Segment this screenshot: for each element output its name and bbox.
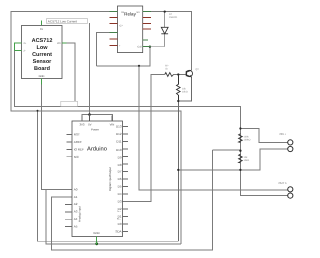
- terminal ON + circles: [288, 140, 293, 152]
- svg-text:Power: Power: [91, 127, 99, 131]
- wire: relay left pin4: [97, 33, 118, 66]
- svg-text:A0: A0: [74, 187, 78, 191]
- resistor R1 1k horizontal: [165, 73, 174, 77]
- svg-text:Low: Low: [37, 45, 49, 51]
- junction dot GND bus: [95, 242, 98, 245]
- svg-text:Sensor: Sensor: [33, 59, 53, 65]
- relay K1: [118, 6, 143, 53]
- svg-text:VO: VO: [57, 42, 61, 45]
- svg-text:D4: D4: [118, 192, 122, 196]
- transistor Q1: [186, 70, 192, 77]
- resistor R3 100k vertical: [239, 134, 243, 143]
- wire: Arduino D10 to divider tap: [213, 149, 241, 151]
- svg-text:Tx→: Tx→: [117, 210, 121, 213]
- svg-text:D6: D6: [118, 177, 122, 181]
- svg-text:Relay: Relay: [124, 12, 136, 17]
- resistor R2 labels: [182, 88, 188, 94]
- relay pin stubs right: [143, 12, 151, 47]
- svg-text:Arduino: Arduino: [87, 146, 107, 153]
- svg-text:Board: Board: [34, 66, 50, 72]
- wire: ON terminal bottom to lower divider node: [178, 149, 287, 170]
- wire: relay pin1 right to diode and transistor collector: [148, 12, 191, 71]
- wire: transistor node vertical down: [177, 95, 179, 241]
- wire net: relay pin1 left loop: [11, 12, 181, 244]
- wire: ACS712 IP+ to divider feed (long line A): [15, 50, 288, 196]
- svg-text:RST: RST: [74, 133, 80, 137]
- svg-text:3V3: 3V3: [80, 123, 85, 127]
- svg-text:1N4001: 1N4001: [169, 16, 178, 19]
- svg-text:D11: D11: [116, 140, 122, 144]
- svg-text:D9: D9: [118, 155, 122, 159]
- Arduino U2: [72, 121, 123, 237]
- Arduino right pin labels: [115, 125, 122, 234]
- svg-text:10kΩ: 10kΩ: [244, 159, 250, 162]
- svg-text:ACS712: ACS712: [32, 38, 53, 44]
- Arduino top pin stubs: [82, 114, 112, 121]
- svg-text:Current: Current: [32, 52, 52, 58]
- svg-text:CB: CB: [121, 11, 125, 14]
- svg-text:Coil: Coil: [137, 46, 142, 49]
- resistor R4 10k vertical: [239, 154, 243, 163]
- svg-text:A2: A2: [74, 202, 78, 206]
- svg-text:GND: GND: [39, 75, 45, 78]
- resistor R3 labels: [244, 136, 251, 142]
- wire: A0 branch down to bus X: [46, 190, 181, 244]
- terminal OUT circles: [288, 187, 293, 199]
- svg-text:Digital Input/Output: Digital Input/Output: [108, 167, 112, 191]
- svg-text:N/C: N/C: [74, 155, 80, 159]
- wire: 5V riser from net label to Arduino 5V: [89, 23, 91, 114]
- diode D1 1N4001: [161, 12, 168, 47]
- ACS712 sensor board U1: [22, 26, 63, 79]
- transistor emitter arrow: [189, 75, 192, 77]
- svg-text:A1: A1: [74, 195, 78, 199]
- Arduino left pin labels: [74, 133, 84, 229]
- net label: ACS712 Low Current: [47, 19, 88, 24]
- wire: emitter bottom link: [178, 77, 191, 101]
- relay pin stubs left: [109, 12, 117, 46]
- svg-text:D13: D13: [116, 125, 122, 129]
- svg-text:10kΩ: 10kΩ: [182, 91, 188, 94]
- wire: relay contact to OUT terminal top: [139, 66, 288, 190]
- resistor R4 labels: [244, 156, 250, 162]
- resistor R1 labels: [165, 64, 169, 70]
- resistor R2 10k vertical: [177, 75, 181, 102]
- svg-text:GND: GND: [93, 231, 99, 235]
- svg-text:D0: D0: [118, 222, 122, 226]
- Arduino GND pin stub: [96, 237, 98, 245]
- svg-text:A5: A5: [74, 224, 78, 228]
- Arduino left pin stubs: [65, 134, 72, 226]
- ACS712 pin stubs: [15, 21, 67, 85]
- svg-text:D10: D10: [116, 148, 122, 152]
- Arduino right pin stubs: [123, 127, 129, 232]
- svg-text:D3: D3: [118, 200, 122, 204]
- svg-text:ACS712 Low Current: ACS712 Low Current: [48, 19, 77, 23]
- wire: coil to diode bottom: [148, 46, 165, 48]
- wire: divider node to ON terminal top: [240, 129, 287, 143]
- svg-text:D5: D5: [118, 185, 122, 189]
- svg-text:100kΩ: 100kΩ: [244, 139, 251, 142]
- wire: ACS712 VO down to net label: [66, 43, 75, 101]
- diode labels: [169, 13, 178, 19]
- wire: Arduino D3 up to base resistor: [123, 75, 165, 202]
- wire: base node to transistor: [174, 74, 187, 76]
- svg-text:SDA: SDA: [115, 230, 121, 234]
- svg-text:Rx←: Rx←: [117, 218, 121, 221]
- net label: small box on line A: [61, 101, 78, 106]
- svg-text:NO: NO: [137, 11, 141, 14]
- svg-text:VIN: VIN: [110, 123, 115, 127]
- svg-text:5V: 5V: [40, 28, 43, 31]
- wire: relay coil to 5V: [82, 47, 150, 121]
- svg-text:D8: D8: [118, 163, 122, 167]
- svg-text:5V: 5V: [88, 123, 92, 127]
- wire: ACS712 GND down to Arduino A0: [42, 84, 72, 190]
- svg-text:Analog Input: Analog Input: [78, 206, 82, 222]
- svg-text:ON +: ON +: [280, 132, 287, 136]
- svg-text:IO REF: IO REF: [74, 148, 84, 152]
- svg-text:D12: D12: [116, 132, 122, 136]
- svg-text:AREF: AREF: [74, 140, 82, 144]
- wire: ground bus from line B to bottom: [38, 111, 179, 241]
- svg-text:OUT 1: OUT 1: [279, 181, 288, 185]
- svg-text:2-: 2-: [24, 50, 26, 53]
- wire: Arduino A1 to bottom bus 2: [52, 150, 213, 250]
- svg-text:D7: D7: [118, 170, 122, 174]
